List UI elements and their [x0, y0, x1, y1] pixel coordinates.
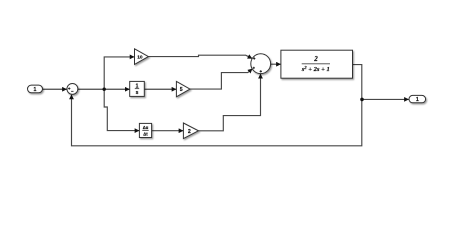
- svg-text:10: 10: [137, 55, 143, 61]
- svg-text:5: 5: [180, 87, 183, 93]
- svg-text:2: 2: [313, 55, 318, 63]
- svg-text:1: 1: [34, 87, 37, 93]
- svg-text:Δu: Δu: [143, 125, 149, 130]
- svg-text:1: 1: [416, 97, 419, 103]
- svg-text:s: s: [136, 90, 139, 96]
- svg-text:Δt: Δt: [143, 132, 148, 137]
- svg-text:2: 2: [188, 129, 191, 135]
